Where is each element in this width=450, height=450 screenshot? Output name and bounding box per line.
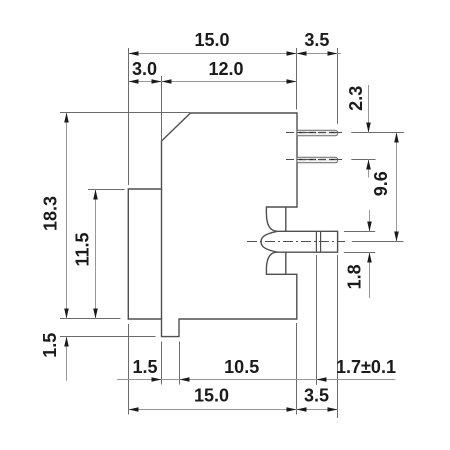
dimension line 12.0 [162, 59, 297, 84]
svg-text:3.0: 3.0 [132, 59, 157, 79]
center pin band line a [315, 231, 317, 252]
dimension line 1.5 left [40, 333, 69, 381]
dimension line 1.5 / 10.5 / 1.7±0.1 row [117, 357, 396, 382]
extension line x=296.8 top [296, 48, 298, 110]
extension line y=189.4 left [88, 189, 125, 191]
svg-text:3.5: 3.5 [304, 30, 329, 50]
extension line y=252.2 right [344, 252, 375, 254]
center pin centerline [247, 241, 345, 243]
extension line y=160 right [351, 159, 375, 161]
extension line x=128.3 top [128, 48, 130, 185]
dimension line 3.5 top [297, 30, 342, 56]
extension line y=133 right [351, 132, 404, 134]
svg-text:18.3: 18.3 [40, 196, 60, 231]
svg-text:12.0: 12.0 [208, 59, 243, 79]
svg-text:2.3: 2.3 [346, 86, 366, 111]
svg-text:15.0: 15.0 [194, 30, 229, 50]
svg-text:9.6: 9.6 [371, 171, 391, 196]
pin 1 centerline [286, 132, 345, 134]
body outline [128, 113, 297, 337]
extension line y=318.8 left [60, 318, 121, 320]
center pin (bullet) [261, 231, 338, 252]
pin 1 (top terminal) [297, 130, 338, 136]
flange/body internal boundary line [161, 189, 163, 319]
extension line x=296.8 bottom [296, 323, 298, 415]
lower flange inner edge [285, 252, 287, 274]
svg-text:1.5: 1.5 [132, 357, 157, 377]
pin 2 centerline [286, 159, 345, 161]
dimension line 9.6 [371, 133, 399, 242]
center pin band line b [320, 231, 322, 252]
extension line x=179 bottom [179, 342, 181, 385]
dimension line 1.8 [345, 210, 372, 298]
extension line x=337.7 top [337, 48, 339, 124]
svg-text:15.0: 15.0 [194, 386, 229, 406]
svg-text:11.5: 11.5 [72, 232, 92, 266]
extension line x=337.7 bottom [337, 255, 339, 418]
svg-text:1.5: 1.5 [40, 333, 60, 358]
extension line x=128.3 bottom [128, 324, 130, 415]
dimension line 18.3 [40, 113, 69, 319]
dimension line 15.0 top [129, 30, 297, 56]
dimension line 3.5 bottom [297, 386, 338, 412]
extension line y=231.4 right [344, 231, 375, 233]
svg-text:1.7±0.1: 1.7±0.1 [336, 357, 396, 377]
svg-text:10.5: 10.5 [224, 357, 259, 377]
extension line x=316.4 bottom [316, 255, 318, 385]
upper flange inner edge [285, 207, 287, 231]
dimension line 15.0 bottom [129, 386, 297, 412]
extension line x=161.5 top [161, 76, 163, 141]
pin 2 (lower terminal) [297, 157, 338, 163]
svg-text:3.5: 3.5 [304, 386, 329, 406]
extension line y=336.3 left [60, 336, 156, 338]
dimension line 11.5 [72, 190, 98, 319]
dimension line 3.0 [129, 59, 162, 84]
extension line y=113 left [60, 112, 190, 114]
svg-text:1.8: 1.8 [345, 264, 365, 289]
extension line x=161.5 bottom [161, 342, 163, 385]
dimension line 2.3 [346, 85, 371, 178]
